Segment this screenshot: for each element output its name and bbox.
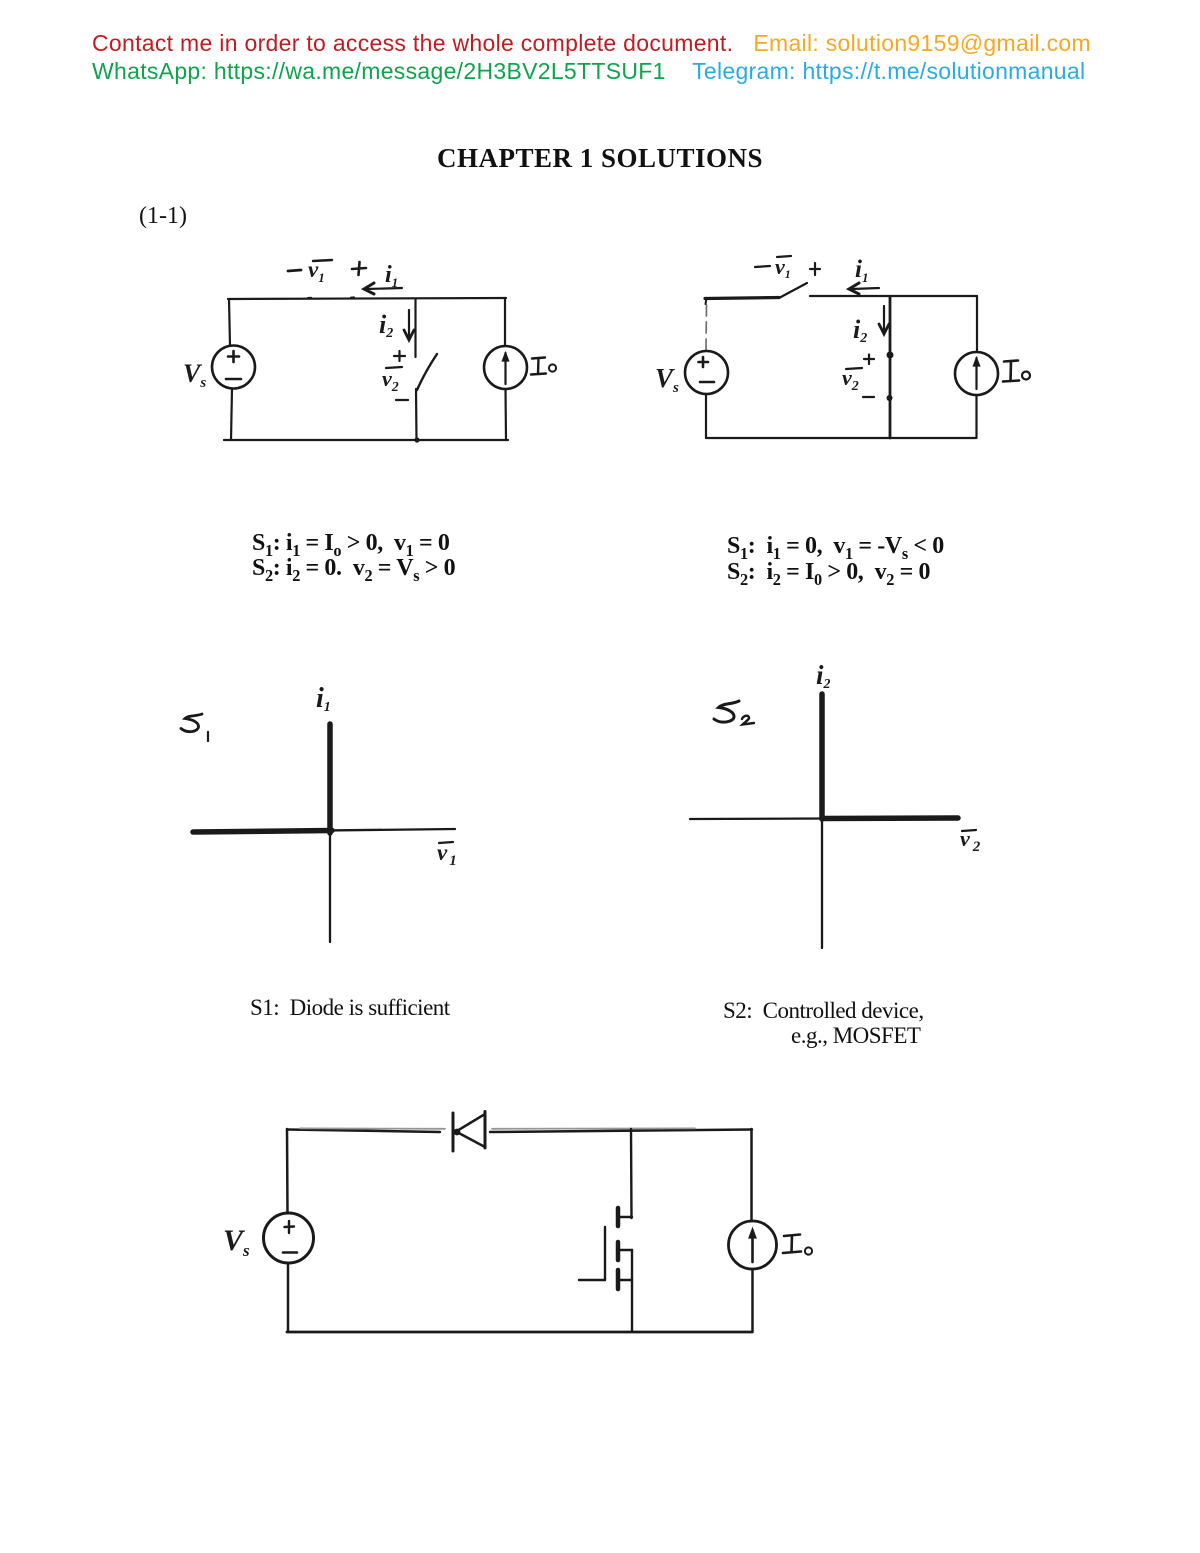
scan ghost line (bottom circuit top wire) <box>300 1127 695 1129</box>
wire right vertical lower (circuit 2) <box>975 395 977 438</box>
voltage source Vs (bottom circuit) <box>264 1213 314 1263</box>
drain stub tick (MOSFET) <box>620 1216 632 1218</box>
label v2 axis (graph S2) <box>960 826 981 855</box>
thick segment on -v1 axis (graph S1) <box>193 831 332 833</box>
label i2 with down arrow (circuit 2) <box>853 306 889 346</box>
svg-text:Vs: Vs <box>183 359 206 391</box>
svg-text:i1: i1 <box>855 256 868 285</box>
wire top (bottom circuit) <box>287 1130 752 1133</box>
wire right vertical upper (circuit 2) <box>976 296 978 352</box>
title <box>0 143 1200 174</box>
label i1 with arrow (circuit 1) <box>364 262 402 294</box>
middle stub bar (MOSFET) <box>616 1242 621 1260</box>
label -v1+ (circuit 1) <box>288 257 366 285</box>
wire bottom (circuit 2) <box>706 437 976 439</box>
svg-text:Vs: Vs <box>655 363 679 396</box>
svg-text:v1: v1 <box>437 840 457 869</box>
label i2 with down arrow (circuit 1) <box>379 310 414 341</box>
label + v2 - polarity (circuit 2) <box>842 355 874 398</box>
horizontal axis (graph S1) <box>193 829 455 832</box>
header line 2 <box>92 58 1085 85</box>
wire right vertical upper (bottom circuit) <box>750 1129 753 1221</box>
gate lead (MOSFET) <box>579 1279 605 1281</box>
svg-text:i1: i1 <box>316 683 331 715</box>
gate bar (MOSFET) <box>604 1227 606 1280</box>
wire left vertical lower (circuit 2) <box>705 394 707 438</box>
label S1 (graph S1) <box>181 714 208 741</box>
wire bottom (circuit 1) <box>224 439 508 441</box>
current source Io (bottom circuit) <box>729 1221 777 1269</box>
drain stub bar (MOSFET) <box>616 1208 621 1226</box>
body-source connector (MOSFET) <box>631 1250 633 1280</box>
thick segment on +v2 axis (graph S2) <box>822 815 958 821</box>
caption S1 <box>250 995 450 1021</box>
source stub bar (MOSFET) <box>616 1270 621 1289</box>
horizontal axis (graph S2) <box>690 818 958 819</box>
junction dot (circuit 1) <box>414 437 419 442</box>
current source Io (circuit 2) <box>955 352 998 395</box>
wire left vertical upper (circuit 2) <box>705 305 708 351</box>
label S2 (graph S2) <box>714 701 754 725</box>
svg-text:Vs: Vs <box>223 1224 250 1260</box>
label Io (circuit 2) <box>1003 361 1030 382</box>
svg-text:i1: i1 <box>385 262 398 290</box>
source lead (MOSFET) <box>631 1280 633 1332</box>
wire top (circuit 1) <box>228 298 506 300</box>
vertical axis (graph S1) <box>329 724 331 942</box>
switch blade open (circuit 2) <box>779 283 807 298</box>
polarity dot upper (circuit 2) <box>887 352 894 359</box>
wire middle branch upper (circuit 1) <box>414 299 416 357</box>
wire middle branch lower (circuit 1) <box>415 389 418 440</box>
thick segment on +i1 axis (graph S1) <box>327 724 333 833</box>
wire left vertical upper (bottom circuit) <box>286 1129 289 1213</box>
label + v2 - polarity (circuit 1) <box>382 351 408 400</box>
wire top left segment (circuit 2) <box>705 298 779 299</box>
wire right vertical lower (circuit 1) <box>504 389 507 440</box>
diode D (bottom circuit) <box>453 1112 485 1152</box>
right formulas <box>727 533 944 585</box>
svg-text:i2: i2 <box>853 315 867 346</box>
current source Io (circuit 1) <box>484 346 527 389</box>
voltage source Vs (circuit 1) <box>212 346 255 389</box>
drain lead (MOSFET) <box>630 1129 633 1218</box>
wire below Vs (circuit 1) <box>231 389 232 441</box>
wire left vertical lower (bottom circuit) <box>287 1263 290 1332</box>
wire right vertical lower (bottom circuit) <box>751 1269 754 1332</box>
label Io (bottom circuit) <box>783 1235 812 1255</box>
source stub tick (MOSFET) <box>620 1279 632 1281</box>
label Io (circuit 1) <box>531 358 556 375</box>
wire top right segment (circuit 2) <box>810 295 977 297</box>
wire middle branch thick (circuit 2) <box>889 297 892 438</box>
wire right vertical upper (circuit 1) <box>504 298 506 346</box>
MOSFET Q (bottom circuit) <box>579 1129 632 1332</box>
left formulas <box>252 531 455 581</box>
label i1 with arrow (circuit 2) <box>849 256 879 294</box>
problem number (1-1) <box>139 203 187 230</box>
svg-text:i2: i2 <box>379 310 393 341</box>
wire bottom (bottom circuit) <box>287 1331 752 1334</box>
svg-text:v2: v2 <box>382 366 399 395</box>
label -v1+ (circuit 2) <box>755 254 820 281</box>
caption S2 <box>723 998 924 1048</box>
label v1 axis (graph S1) <box>437 840 457 869</box>
voltage source Vs (circuit 2) <box>685 351 728 394</box>
vertical axis (graph S2) <box>821 694 823 948</box>
thick segment on +i2 axis (graph S2) <box>819 694 825 819</box>
switch S2 blade (circuit 1) <box>417 354 437 390</box>
header line 1 <box>92 30 1091 57</box>
wire left vertical (circuit 1) <box>229 299 230 346</box>
polarity dot lower (circuit 2) <box>887 395 893 401</box>
middle stub tick (MOSFET) <box>620 1249 632 1251</box>
svg-text:i2: i2 <box>816 660 831 692</box>
